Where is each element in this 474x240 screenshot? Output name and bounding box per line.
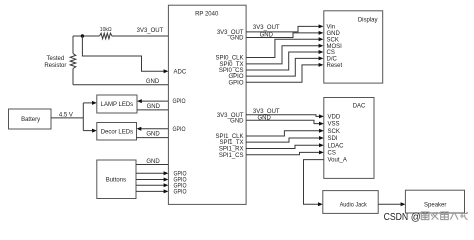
svg-text:RP 2040: RP 2040 <box>195 11 219 17</box>
arrow SCK <box>319 37 324 41</box>
svg-text:Resistor: Resistor <box>44 63 66 69</box>
svg-text:GND: GND <box>327 31 341 37</box>
wire 3V3 to display Vin <box>246 26 319 32</box>
dac U2 <box>324 98 374 179</box>
wire 3V3_OUT top rail <box>73 35 168 37</box>
block Buttons <box>97 160 136 199</box>
watermark glyph 4 <box>450 212 458 220</box>
node junction dot <box>81 34 84 37</box>
wire audio jack to speaker <box>378 203 401 205</box>
resistor R2 Tested Resistor zigzag <box>70 54 76 69</box>
arrow VSS <box>319 122 324 126</box>
svg-text:SPI1_RX: SPI1_RX <box>219 147 244 153</box>
svg-text:Tested: Tested <box>47 56 65 62</box>
wire left branch vertical <box>72 36 74 85</box>
arrow LDAC <box>319 143 324 147</box>
arrow GND display <box>319 31 324 35</box>
arrow into lamp leds <box>92 101 97 105</box>
arrow into speaker <box>401 202 406 206</box>
svg-text:SDI: SDI <box>328 136 338 142</box>
arrow CS dac <box>319 150 324 154</box>
svg-text:D/C: D/C <box>327 57 338 63</box>
svg-text:4.5 V: 4.5 V <box>59 112 73 118</box>
svg-text:SPI1_CLK: SPI1_CLK <box>215 134 243 140</box>
svg-text:SPI1_TX: SPI1_TX <box>219 140 243 146</box>
svg-text:SPI0_CLK: SPI0_CLK <box>215 56 243 62</box>
svg-text:GND: GND <box>230 118 244 124</box>
svg-text:GND: GND <box>147 104 161 110</box>
svg-text:SPI0_TX: SPI0_TX <box>219 62 243 68</box>
wire gpio to lamp <box>142 100 169 102</box>
wire battery output <box>51 117 83 119</box>
svg-text:GPIO: GPIO <box>173 99 186 105</box>
svg-text:3V3_OUT: 3V3_OUT <box>253 25 280 31</box>
wire SPI0_CLK to SCK <box>246 39 319 57</box>
display module <box>324 11 383 83</box>
wire SPI0_TX to MOSI <box>246 46 319 64</box>
arrow gpio3 <box>164 183 169 187</box>
block Audio Jack <box>323 191 378 214</box>
watermark glyph 2 <box>431 212 438 220</box>
wire GND to DAC VSS <box>246 120 319 123</box>
watermark glyph 5 <box>460 212 468 220</box>
arrow into decor leds <box>92 129 97 133</box>
svg-text:MOSI: MOSI <box>327 44 343 50</box>
svg-text:10kΩ: 10kΩ <box>100 27 112 33</box>
svg-text:GPIO: GPIO <box>174 183 187 189</box>
svg-text:SPI1_CS: SPI1_CS <box>219 153 244 159</box>
svg-text:GND: GND <box>230 36 244 42</box>
svg-text:LDAC: LDAC <box>328 143 345 149</box>
wire SPI1_RX to LDAC <box>246 145 319 148</box>
arrow D/C <box>319 56 324 60</box>
arrow into audio jack <box>318 202 323 206</box>
wire gpio to decor <box>141 128 168 130</box>
arrow VDD <box>319 114 324 118</box>
mcu U1 RP 2040 <box>168 5 246 204</box>
svg-text:Battery: Battery <box>21 117 40 123</box>
arrow SCK dac <box>319 129 324 133</box>
wire 3V3 to DAC VDD <box>246 115 319 117</box>
arrow CS display <box>319 50 324 54</box>
wire ADC tap <box>82 36 164 71</box>
wire SPI0_CS to CS <box>246 52 319 70</box>
wire GND bottom rail <box>73 84 168 86</box>
arrow gpio1 <box>164 171 169 175</box>
wire GPIO to D/C <box>246 58 319 76</box>
arrow into lamp right <box>137 99 142 103</box>
resistor R1 10kΩ zigzag <box>100 33 113 39</box>
wire to decor leds <box>83 130 92 132</box>
svg-text:VSS: VSS <box>328 122 340 128</box>
svg-text:Vin: Vin <box>327 25 336 31</box>
arrow into ADC <box>164 69 169 73</box>
svg-text:GND: GND <box>260 33 274 39</box>
wire decor gnd <box>137 137 169 139</box>
svg-text:GPIO: GPIO <box>173 127 186 133</box>
arrow MOSI <box>319 44 324 48</box>
battery B1 <box>9 109 52 129</box>
svg-text:ADC: ADC <box>174 69 187 75</box>
svg-text:CS: CS <box>327 50 335 56</box>
wire SPI1_TX to SDI <box>246 138 319 142</box>
block LAMP LEDs <box>97 95 137 113</box>
watermark glyph 3 <box>441 212 449 220</box>
wire lamp gnd <box>137 109 168 111</box>
svg-text:Display: Display <box>358 17 378 23</box>
svg-text:CSDN: CSDN <box>384 212 409 223</box>
svg-text:Decor LEDs: Decor LEDs <box>101 130 133 136</box>
wire GPIO to Reset <box>246 65 319 82</box>
svg-text:GND: GND <box>146 79 160 85</box>
svg-text:GPIO: GPIO <box>228 80 243 86</box>
arrow into decor right <box>137 127 142 131</box>
svg-text:GND: GND <box>146 132 160 138</box>
wire battery split <box>82 103 84 131</box>
block Decor LEDs <box>97 123 137 141</box>
svg-text:Audio Jack: Audio Jack <box>340 202 368 208</box>
wire SPI1_CS to CS <box>246 152 319 154</box>
wire SPI1_CLK to SCK <box>246 131 319 136</box>
wire button gpio 4 <box>136 190 164 192</box>
svg-text:VDD: VDD <box>328 115 341 121</box>
svg-text:GND: GND <box>258 115 272 121</box>
wire button gpio 1 <box>136 172 164 174</box>
wire button gpio 3 <box>136 184 164 186</box>
watermark CSDN <box>384 212 421 223</box>
svg-text:SPI0_CS: SPI0_CS <box>219 68 244 74</box>
svg-text:CS: CS <box>328 151 336 157</box>
svg-text:3V3_OUT: 3V3_OUT <box>253 109 280 115</box>
arrow gpio2 <box>164 178 169 182</box>
svg-text:GND: GND <box>146 159 160 165</box>
svg-text:Speaker: Speaker <box>424 202 446 208</box>
wire Vout_A to audio jack <box>304 160 324 205</box>
svg-text:LAMP LEDs: LAMP LEDs <box>101 102 134 108</box>
arrow SDI <box>319 136 324 140</box>
wire GND to display <box>246 33 319 38</box>
svg-text:GPIO: GPIO <box>228 74 243 80</box>
svg-text:GPIO: GPIO <box>174 171 187 177</box>
svg-text:DAC: DAC <box>353 103 366 109</box>
arrow Reset <box>319 63 324 67</box>
wire button gpio 2 <box>136 179 164 181</box>
svg-text:Reset: Reset <box>327 63 343 69</box>
arrow gpio4 <box>164 189 169 193</box>
wire to lamp leds <box>83 102 92 104</box>
svg-text:SCK: SCK <box>328 129 340 135</box>
wire buttons gnd <box>136 164 168 166</box>
svg-text:Buttons: Buttons <box>106 177 126 183</box>
watermark glyph 1 <box>421 212 429 220</box>
svg-text:SCK: SCK <box>327 37 339 43</box>
arrow Vin <box>319 24 324 28</box>
svg-text:@: @ <box>411 212 421 223</box>
svg-text:GPIO: GPIO <box>174 190 187 196</box>
block Speaker <box>405 190 464 213</box>
svg-text:Vout_A: Vout_A <box>328 158 347 164</box>
svg-text:3V3_OUT: 3V3_OUT <box>137 28 164 34</box>
